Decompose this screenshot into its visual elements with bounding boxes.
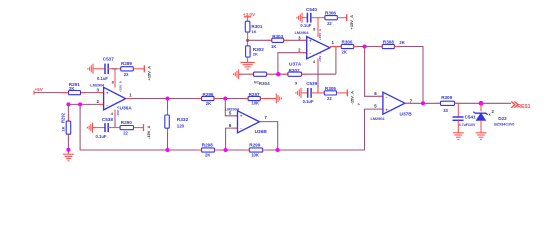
node junction dot U37B pin6 [363, 44, 367, 48]
svg-text:-15V_A: -15V_A [350, 91, 355, 105]
svg-text:BZX84C3V0: BZX84C3V0 [494, 123, 514, 127]
svg-text:LM2904: LM2904 [371, 117, 386, 121]
svg-text:R299: R299 [249, 143, 260, 148]
svg-text:22: 22 [327, 96, 332, 101]
svg-text:R292: R292 [61, 112, 66, 123]
wire R308 to U37B output [394, 47, 423, 104]
wire U36B output [260, 122, 278, 150]
wire U37A output [330, 46, 341, 48]
wire R296 to junction [214, 98, 248, 100]
resistor R306 [325, 11, 338, 26]
svg-text:120: 120 [177, 124, 185, 129]
svg-text:0.1uF: 0.1uF [303, 99, 314, 104]
op-amp U37A [289, 31, 335, 68]
svg-text:R301: R301 [251, 24, 262, 29]
capacitor C541 [453, 114, 477, 127]
wire U37B output row [405, 102, 441, 104]
svg-text:R332: R332 [177, 117, 189, 123]
svg-text:1: 1 [332, 40, 335, 45]
wire bottom rail from pin2 node down and across to U37B pin5 [80, 104, 383, 150]
svg-text:R290: R290 [121, 120, 132, 125]
svg-text:R306: R306 [325, 11, 336, 16]
resistor R303 [271, 34, 284, 49]
svg-text:-15V_A: -15V_A [116, 105, 120, 116]
resistor R300 [341, 40, 354, 55]
svg-text:6: 6 [374, 91, 377, 96]
node off-page connector NES1 [511, 102, 530, 111]
power -15V_A for U36A [134, 124, 151, 139]
svg-text:+15V_A: +15V_A [118, 80, 122, 92]
svg-text:8: 8 [112, 80, 114, 84]
svg-text:+15V_A: +15V_A [147, 66, 152, 81]
node junction dot U37B out [421, 101, 425, 105]
svg-text:+15V_A: +15V_A [318, 28, 322, 40]
resistor R299 [245, 143, 268, 158]
svg-text:4: 4 [111, 112, 114, 116]
svg-text:3: 3 [298, 36, 301, 41]
svg-text:R303: R303 [272, 34, 283, 39]
wire U36A pin4 power [111, 105, 120, 127]
power +15V_A for U36A [133, 65, 151, 80]
wire C539 to R305 [311, 92, 324, 94]
resistor R290 [120, 120, 133, 135]
wire U36A pin8 power [112, 69, 123, 92]
capacitor C537 [97, 57, 114, 81]
power -15V_A for U37A [337, 89, 355, 104]
svg-text:1: 1 [129, 92, 132, 97]
resistor R291 [69, 82, 81, 95]
power +15V_A for U37A [337, 14, 354, 29]
svg-text:5: 5 [374, 103, 377, 108]
wire U37A pin8 power [313, 18, 322, 40]
svg-text:1K: 1K [251, 29, 256, 34]
svg-text:U37B: U37B [400, 112, 413, 118]
svg-text:33: 33 [443, 108, 448, 113]
svg-text:R289: R289 [121, 61, 132, 66]
wire U37B pin5 stub [378, 108, 383, 110]
svg-text:7: 7 [264, 115, 267, 120]
ground R297 [260, 94, 281, 104]
resistor R305 [324, 86, 336, 101]
svg-text:R308: R308 [383, 40, 394, 45]
diode D23 zener [473, 109, 514, 126]
resistor R309 [441, 95, 455, 113]
node junction dot output U36A [165, 96, 169, 100]
ground C539 [296, 88, 308, 98]
svg-text:3: 3 [97, 87, 100, 92]
op-amp U37B [371, 91, 413, 121]
svg-text:R297: R297 [249, 92, 260, 97]
op-amp U36B [225, 107, 268, 135]
svg-text:4: 4 [313, 60, 316, 64]
svg-text:6: 6 [229, 123, 232, 128]
node +3.0V [243, 12, 256, 17]
svg-text:5: 5 [229, 111, 232, 116]
svg-text:LM2904: LM2904 [295, 31, 310, 35]
resistor R304 [254, 72, 271, 86]
resistor R289 [121, 61, 134, 77]
node tiny mark near U37B pin5 [358, 102, 361, 107]
svg-text:-15V_A: -15V_A [318, 51, 322, 62]
capacitor C539 [303, 81, 318, 104]
wire U36B pin5 [225, 99, 237, 116]
wire U36B pin6 [226, 128, 238, 150]
wire divider to R303 [248, 39, 272, 41]
ground C541 [453, 120, 464, 139]
svg-text:7: 7 [410, 98, 413, 103]
node junction dot rail U36B out [276, 148, 280, 152]
wire C541 tap [457, 103, 459, 117]
ground R302 [240, 57, 254, 69]
svg-text:2K: 2K [399, 40, 404, 45]
svg-text:0.1uF: 0.1uF [97, 76, 108, 81]
svg-text:0.1uF: 0.1uF [300, 23, 311, 28]
resistor R301 [245, 21, 263, 34]
svg-text:U36B: U36B [255, 129, 268, 135]
svg-text:+15V_A: +15V_A [349, 15, 354, 30]
wire U36A output row [126, 98, 202, 100]
wire +5V input to R291 [34, 91, 69, 95]
node junction dot R292 bottom [66, 148, 70, 152]
resistor R308 [382, 40, 405, 49]
ground C540 [297, 13, 307, 23]
svg-text:9: 9 [295, 81, 297, 85]
svg-text:-15V_A: -15V_A [146, 125, 151, 139]
svg-text:2K: 2K [69, 86, 74, 91]
capacitor C538 [96, 117, 114, 139]
svg-text:>: > [358, 102, 361, 107]
resistor R307 [288, 68, 302, 85]
wire U37A pin4 power [313, 51, 322, 93]
node junction dot divider [246, 39, 249, 42]
svg-text:C539: C539 [306, 81, 317, 86]
svg-text:10K: 10K [251, 153, 259, 158]
svg-text:1K: 1K [271, 44, 276, 49]
svg-text:C540: C540 [306, 7, 317, 12]
svg-text:2: 2 [298, 48, 301, 53]
node junction dot U36B pin5 [223, 96, 227, 100]
svg-text:2K: 2K [253, 51, 258, 56]
svg-text:2: 2 [97, 99, 100, 104]
wire U36A pin2 row [68, 103, 103, 105]
resistor R298 [197, 143, 220, 158]
svg-text:+5V: +5V [35, 87, 44, 92]
svg-text:0.1uF: 0.1uF [96, 134, 107, 139]
ground under R292 [63, 154, 74, 161]
wire C538 to R290 [108, 127, 120, 129]
svg-text:2K: 2K [342, 49, 347, 54]
svg-text:2K: 2K [205, 153, 210, 158]
resistor R297 [248, 92, 260, 106]
node junction dot pin2 left [66, 102, 70, 106]
node junction dot rail pin6 [224, 148, 228, 152]
svg-text:1K: 1K [61, 126, 66, 131]
wire R303 to U37A pin3 [284, 39, 307, 41]
svg-text:R309: R309 [441, 95, 452, 100]
wire U37A pin2 [278, 53, 307, 74]
svg-text:10K: 10K [251, 101, 259, 106]
svg-text:4.7uF/10V: 4.7uF/10V [459, 123, 476, 127]
svg-text:R296: R296 [203, 92, 214, 97]
wire R307 to feedback [302, 47, 336, 75]
svg-text:8: 8 [313, 28, 315, 32]
svg-text:RES1: RES1 [517, 104, 530, 110]
wire R309 to off-page [455, 102, 512, 104]
capacitor C540 [300, 7, 317, 28]
resistor R302 [246, 46, 265, 57]
svg-text:C538: C538 [102, 117, 113, 122]
wire R291 to U36A pin3 [81, 92, 104, 94]
svg-text:2K: 2K [206, 101, 211, 106]
svg-text:x: x [489, 112, 491, 116]
svg-text:22: 22 [123, 131, 128, 136]
svg-text:C537: C537 [103, 57, 114, 62]
wire R300 to junction [354, 46, 383, 48]
wire +3.0V to R301 [247, 17, 249, 21]
wire U37B pin6 [365, 47, 383, 97]
svg-text:R305: R305 [325, 86, 336, 91]
ground C537 [88, 64, 105, 74]
wire R292 branch [67, 104, 69, 153]
svg-text:LM2904: LM2904 [225, 107, 240, 111]
node +5V label [35, 87, 44, 92]
wire C540 to R306 [311, 17, 325, 19]
svg-text:R304: R304 [259, 81, 270, 86]
svg-text:R300: R300 [342, 40, 353, 45]
wire C537 to R289 with pin8 tap [108, 68, 121, 70]
svg-text:U37A: U37A [289, 62, 302, 68]
svg-text:22: 22 [327, 21, 332, 26]
svg-text:D23: D23 [498, 116, 507, 121]
resistor R296 [202, 92, 214, 106]
node junction dot pin2 right [78, 102, 82, 106]
ground C538 [87, 123, 105, 133]
ground D23 [476, 120, 487, 139]
node junction dot U37A pin2 [276, 72, 281, 77]
node junction dot output node [479, 101, 484, 106]
svg-text:R298: R298 [202, 143, 213, 148]
wire R301 to R302 [247, 32, 249, 46]
wire R332 branch [167, 99, 169, 151]
resistor R332 [165, 115, 189, 129]
wire R304 to junction [267, 73, 288, 75]
wire D23 branch [480, 103, 482, 111]
svg-text:C541: C541 [465, 114, 476, 119]
ground R304 [234, 69, 254, 79]
svg-text:R307: R307 [289, 68, 300, 73]
resistor R292 [61, 112, 71, 134]
node junction dot R332 bottom [165, 148, 169, 152]
op-amp U36A [90, 83, 132, 111]
svg-text:U36A: U36A [120, 106, 133, 112]
svg-text:22: 22 [124, 72, 129, 77]
svg-text:2: 2 [492, 109, 495, 114]
